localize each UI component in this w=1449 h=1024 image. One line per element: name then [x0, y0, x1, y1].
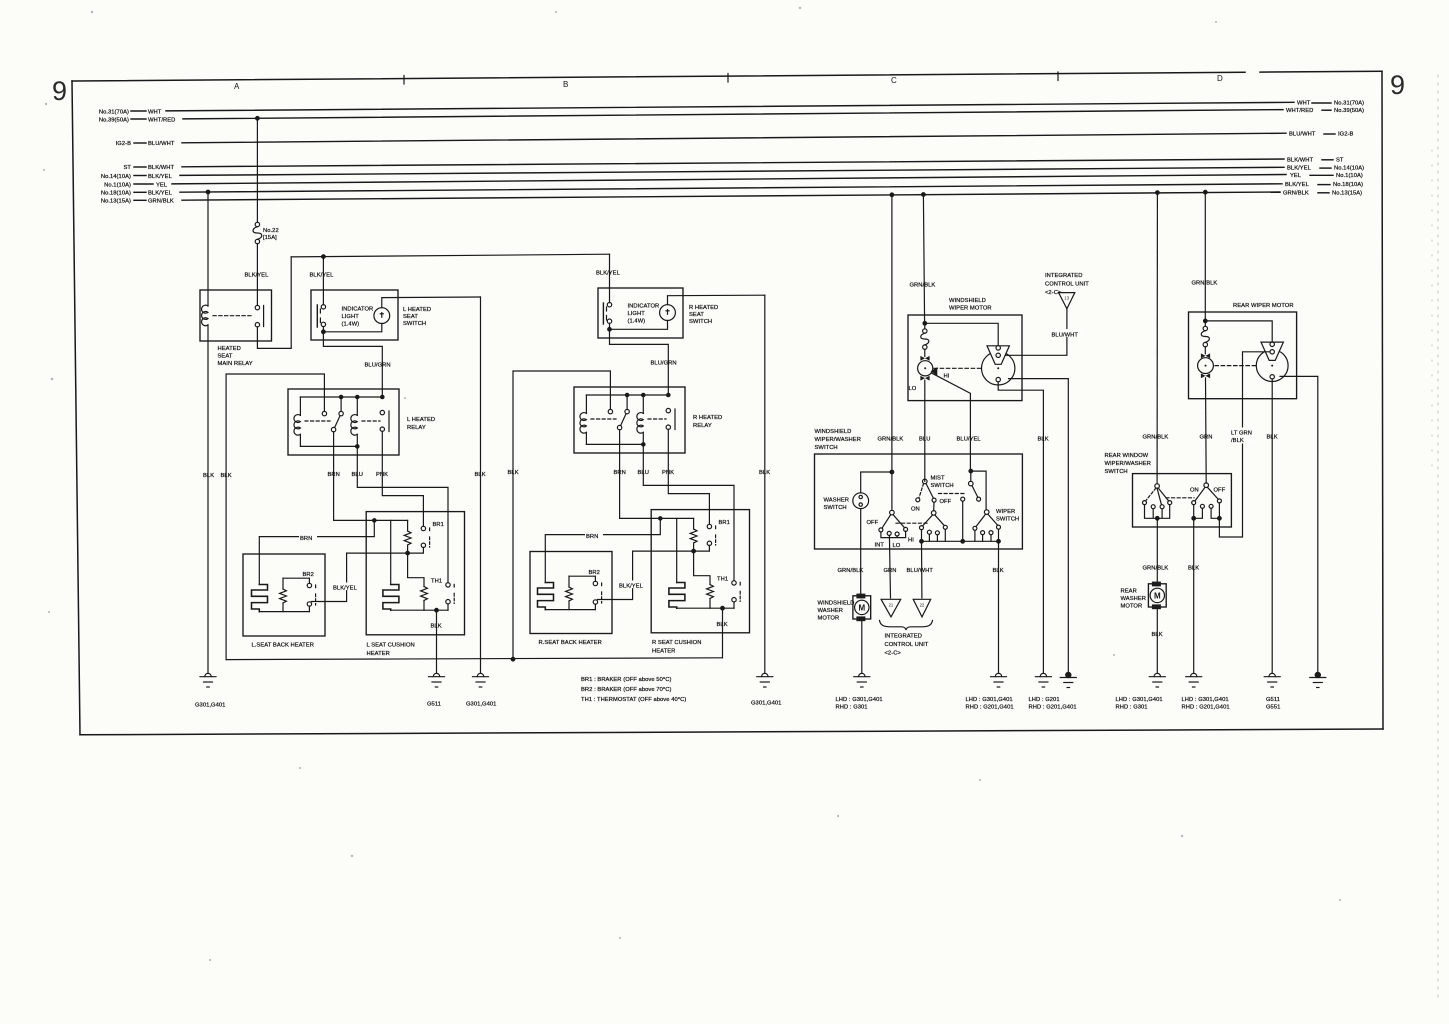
svg-text:MOTOR: MOTOR	[818, 616, 840, 622]
svg-text:No.14(10A): No.14(10A)	[101, 174, 131, 180]
svg-text:BLK/YEL: BLK/YEL	[619, 583, 644, 589]
svg-text:No.39(50A): No.39(50A)	[1334, 108, 1364, 114]
windshield wiper/washer switch box	[815, 429, 1023, 549]
chassis ground rear park	[1310, 672, 1326, 687]
park switch circle	[982, 352, 1015, 385]
svg-text:WHT/RED: WHT/RED	[148, 117, 175, 123]
wire rear motor to rear switch, label GRN	[1200, 378, 1213, 483]
wire rear motor inner rail to park switch	[1205, 321, 1272, 342]
R cushion element feed wire	[676, 518, 678, 582]
svg-text:R HEATED: R HEATED	[689, 305, 718, 311]
node cushion BLK	[435, 608, 439, 612]
wire LT GRN/BLK park to rear switch	[1219, 352, 1270, 537]
svg-text:R SEAT CUSHION: R SEAT CUSHION	[652, 640, 701, 646]
node cushion BLK right	[721, 606, 725, 610]
svg-text:No.18(10A): No.18(10A)	[101, 191, 131, 197]
svg-text:22: 22	[920, 603, 925, 608]
svg-text:G511: G511	[427, 702, 441, 708]
L heated seat switch box	[311, 290, 431, 340]
R indicator light (1.4W)	[628, 304, 676, 325]
R cushion bottom rail	[677, 602, 734, 608]
scan artifact right margin	[1432, 75, 1438, 1000]
svg-text:BLK: BLK	[1188, 566, 1199, 572]
svg-text:SWITCH: SWITCH	[815, 445, 838, 451]
svg-text:YEL: YEL	[156, 182, 168, 188]
svg-text:CONTROL UNIT: CONTROL UNIT	[1045, 282, 1089, 288]
svg-text:HEATED: HEATED	[218, 346, 241, 352]
svg-text:GRN/BLK: GRN/BLK	[878, 437, 904, 443]
page number 9 right	[1390, 70, 1405, 100]
svg-text:D: D	[1217, 74, 1223, 83]
svg-text:GRN/BLK: GRN/BLK	[148, 199, 174, 205]
column tick 2	[727, 74, 729, 83]
svg-text:OFF: OFF	[867, 520, 879, 526]
svg-text:BLK: BLK	[221, 473, 232, 479]
heated seat main relay box	[200, 290, 272, 367]
R back heater top link	[569, 575, 595, 577]
L heated relay box	[288, 389, 435, 455]
svg-text:13: 13	[1064, 296, 1069, 301]
column tick 1	[403, 76, 405, 85]
ground G301,G401 right	[751, 673, 781, 706]
svg-text:MAIN RELAY: MAIN RELAY	[218, 361, 253, 367]
L switch contacts	[317, 305, 325, 327]
node rail-coil2	[356, 395, 359, 398]
chassis ground park switch	[1060, 672, 1076, 687]
svg-text:CONTROL UNIT: CONTROL UNIT	[885, 642, 929, 648]
wiper switch left pole	[867, 510, 915, 549]
bus wire No.14(10A) BLK/YEL	[101, 166, 1364, 180]
column tick 3	[1057, 72, 1059, 81]
svg-text:WIPER MOTOR: WIPER MOTOR	[949, 306, 992, 312]
bus wire IG2-B BLU/WHT	[116, 132, 1354, 148]
dashed link mist poles	[939, 493, 967, 495]
node BRN jog R	[659, 517, 662, 520]
svg-text:No.18(10A): No.18(10A)	[1333, 182, 1363, 188]
svg-text:BLK/YEL: BLK/YEL	[148, 191, 173, 197]
washer switch	[824, 493, 869, 511]
svg-text:WIPER/WASHER: WIPER/WASHER	[815, 437, 861, 443]
wiper left pole links	[881, 531, 906, 537]
column letter A	[234, 82, 240, 91]
wire BLK/YEL link BR2 to cushion junction	[311, 553, 407, 601]
node washer tee	[890, 470, 894, 474]
svg-text:RELAY: RELAY	[407, 425, 426, 431]
svg-text:WASHER: WASHER	[1121, 596, 1147, 602]
svg-text:PNK: PNK	[376, 472, 388, 478]
node rail mist	[961, 540, 965, 544]
svg-text:A: A	[234, 82, 240, 91]
L cushion resistor 2	[421, 587, 428, 611]
node junction BR1/resistor right	[692, 549, 696, 553]
svg-text:RHD : G201,G401: RHD : G201,G401	[1029, 705, 1077, 711]
node rail-changeover R	[625, 393, 628, 396]
svg-text:OFF: OFF	[1214, 488, 1226, 494]
svg-text:LO: LO	[893, 543, 901, 549]
svg-text:RHD : G201,G401: RHD : G201,G401	[1182, 705, 1230, 711]
wire BLU/YEL tee to wiper pole 3	[971, 471, 986, 510]
svg-text:WASHER: WASHER	[818, 608, 844, 614]
bus wire No.39(50A) WHT/RED	[99, 108, 1364, 124]
wire motor LO to mist switch, label BLU	[919, 380, 930, 481]
page number 9 left	[52, 76, 67, 106]
L back heater top link	[283, 577, 309, 579]
svg-text:B: B	[563, 80, 568, 89]
node rear switch BLK out	[1192, 517, 1196, 521]
wiper motor breaker	[921, 323, 929, 356]
svg-text:WINDSHIELD: WINDSHIELD	[815, 429, 852, 435]
R heated seat switch box	[598, 288, 718, 338]
wire BRN from L relay	[328, 432, 408, 521]
svg-text:BLK: BLK	[508, 470, 519, 476]
svg-text:L HEATED: L HEATED	[407, 417, 435, 423]
svg-text:(1.4W): (1.4W)	[342, 322, 360, 328]
wiper motor armature	[909, 356, 950, 392]
svg-text:RHD : G301: RHD : G301	[836, 705, 868, 711]
R relay inner bottom rail	[586, 443, 643, 445]
L relay coil 1	[294, 397, 300, 446]
svg-text:WHT: WHT	[148, 109, 162, 115]
node rail-changeover	[339, 395, 342, 398]
column letter B	[563, 80, 568, 89]
note BR1 BR2 TH1 definitions	[581, 677, 686, 703]
svg-text:G551: G551	[1266, 705, 1280, 711]
L cushion resistor 1	[404, 520, 411, 553]
svg-text:BLU: BLU	[638, 470, 649, 476]
wire rail to L switch, label BLK/YEL	[310, 257, 335, 305]
L relay power contact	[380, 410, 389, 431]
svg-text:SEAT: SEAT	[403, 314, 418, 320]
svg-text:L SEAT CUSHION: L SEAT CUSHION	[367, 643, 415, 649]
breaker BR1 right	[707, 520, 730, 546]
L relay inner bottom rail	[300, 445, 357, 447]
L back heater element	[252, 585, 268, 612]
R seat back heater box	[530, 552, 612, 647]
wire BLK from lamp rail to ground, label BLK	[475, 297, 486, 673]
wire BLK from R lamp rail to ground, label BLK	[759, 295, 770, 673]
wire motor inner rail to park switch	[925, 323, 998, 345]
R back heater bottom rail	[545, 604, 595, 609]
svg-text:GRN: GRN	[1200, 435, 1213, 441]
node BLU/YEL tee	[969, 469, 973, 473]
svg-text:INT: INT	[875, 543, 885, 549]
svg-text:HI: HI	[944, 374, 950, 380]
L relay inner top rail	[300, 396, 382, 398]
bus wire No.18(10A) BLK/YEL	[101, 182, 1363, 196]
svg-text:BLK: BLK	[431, 624, 442, 630]
svg-text:BLK: BLK	[759, 470, 770, 476]
integrated control unit 21	[881, 599, 901, 617]
wire L switch lower contact to lamp bottom	[323, 324, 381, 332]
indicator light (1.4W)	[342, 307, 390, 328]
R cushion resistor 2	[707, 585, 714, 609]
mist switch right pole	[961, 471, 981, 501]
svg-text:GRN/BLK: GRN/BLK	[910, 283, 936, 289]
svg-text:YEL: YEL	[1290, 173, 1302, 179]
wire BLU/WHT ICU13 to park switch	[1002, 309, 1082, 356]
svg-text:LIGHT: LIGHT	[628, 311, 646, 317]
svg-text:SWITCH: SWITCH	[1105, 469, 1128, 475]
svg-text:SWITCH: SWITCH	[403, 321, 426, 327]
svg-text:OFF: OFF	[940, 499, 952, 505]
supply rail BLK/YEL to seat switches	[291, 254, 609, 257]
svg-text:LHD : G301,G401: LHD : G301,G401	[1116, 697, 1163, 703]
svg-text:GRN: GRN	[884, 568, 897, 574]
svg-text:BLU/GRN: BLU/GRN	[651, 361, 677, 367]
R relay dashed links	[591, 418, 666, 420]
wire GRN/BLK bus to wiper motor, label GRN/BLK	[910, 195, 936, 324]
svg-text:INDICATOR: INDICATOR	[342, 307, 374, 313]
park switch bottom contact	[996, 377, 1000, 381]
svg-text:R HEATED: R HEATED	[693, 415, 722, 421]
svg-text:L HEATED: L HEATED	[403, 307, 431, 313]
node R switch output	[608, 328, 612, 332]
windshield wiper motor box	[908, 298, 1022, 401]
ground washer motor	[836, 673, 883, 710]
bus wire No.31(70A) WHT	[99, 101, 1364, 116]
svg-text:BLU/YEL: BLU/YEL	[957, 437, 982, 443]
wire PNK from L relay to BR1	[376, 431, 423, 526]
svg-text:INTEGRATED: INTEGRATED	[885, 634, 922, 640]
svg-text:No.31(70A): No.31(70A)	[99, 109, 129, 115]
svg-text:BR1 : BRAKER (OFF above 50°C): BR1 : BRAKER (OFF above 50°C)	[581, 677, 671, 683]
node rear switch GRN/BLK out	[1156, 517, 1160, 521]
svg-text:BR1: BR1	[719, 520, 730, 526]
node rear motor inner rail	[1204, 319, 1208, 323]
svg-text:/BLK: /BLK	[1231, 438, 1244, 444]
svg-text:PNK: PNK	[662, 470, 674, 476]
thermostat TH1 right	[717, 577, 740, 602]
svg-text:BLK/YEL: BLK/YEL	[148, 174, 173, 180]
svg-text:BLK: BLK	[1152, 632, 1163, 638]
svg-text:BLK: BLK	[1038, 437, 1049, 443]
svg-text:LHD : G301,G401: LHD : G301,G401	[966, 697, 1013, 703]
node GRN/BLK bus to rear motor	[1204, 190, 1208, 194]
wire BLK to ground, label BLK	[993, 541, 1004, 673]
wire BLU from L relay to TH1	[352, 446, 449, 582]
rear window wiper/washer switch box	[1105, 453, 1232, 527]
bus wire ST BLK/WHT	[123, 157, 1343, 171]
svg-text:LO: LO	[909, 386, 917, 392]
wire BRN jog down to heater feed line	[259, 520, 374, 584]
wire main relay contact output to supply rail	[257, 257, 291, 349]
svg-text:[15A]: [15A]	[263, 235, 277, 241]
mist switch left pole	[911, 476, 954, 513]
wire HI diagonal to BLU/YEL, label BLU/YEL	[932, 373, 982, 471]
wire GRN/BLK bus to rear wiper motor, label GRN/BLK	[1192, 192, 1218, 321]
L relay coil 2	[351, 397, 357, 446]
wire BLU from R relay to TH1	[638, 444, 735, 580]
R heated relay box	[574, 387, 722, 453]
R relay power contact	[666, 408, 675, 429]
brace integrated control unit	[880, 621, 933, 631]
svg-text:No.14(10A): No.14(10A)	[1334, 166, 1364, 172]
svg-text:WHT: WHT	[1297, 101, 1311, 107]
svg-text:G301,G401: G301,G401	[195, 703, 225, 709]
svg-text:BLK/WHT: BLK/WHT	[1287, 157, 1314, 163]
rear switch right pole ON/OFF	[1190, 483, 1226, 508]
svg-text:No.22: No.22	[263, 228, 279, 234]
column letter D	[1217, 74, 1223, 83]
node GRN/BLK bus to wiper motor	[922, 193, 926, 197]
windshield washer motor	[818, 594, 871, 622]
svg-text:L.SEAT BACK HEATER: L.SEAT BACK HEATER	[252, 643, 314, 649]
svg-text:BRN: BRN	[300, 536, 312, 542]
rear motor breaker	[1201, 321, 1209, 354]
svg-text:WINDSHIELD: WINDSHIELD	[949, 298, 986, 304]
svg-text:ST: ST	[123, 165, 131, 171]
svg-text:M: M	[858, 603, 865, 612]
svg-text:R.SEAT BACK HEATER: R.SEAT BACK HEATER	[539, 640, 602, 646]
L cushion bottom rail	[391, 604, 448, 610]
R cushion heater element	[669, 583, 685, 609]
svg-text:G301,G401: G301,G401	[751, 701, 781, 707]
park switch sector	[987, 346, 1009, 365]
wire R lamp top to BLK ground wire	[668, 295, 765, 305]
border frame of diagram	[72, 71, 1383, 735]
svg-text:MIST: MIST	[931, 476, 945, 482]
wire fuse to main relay contact, label BLK/YEL	[245, 244, 270, 306]
svg-text:WASHER: WASHER	[824, 498, 850, 504]
wire BLU/WHT to ICU22, label BLU/WHT	[907, 541, 934, 598]
L cushion element feed wire	[390, 520, 392, 584]
svg-text:21: 21	[889, 603, 894, 608]
wire GRN to ICU21, label GRN	[884, 535, 897, 598]
svg-text:C: C	[891, 76, 897, 85]
R switch contacts	[603, 303, 611, 325]
svg-text:SEAT: SEAT	[218, 354, 233, 360]
rear washer motor	[1121, 582, 1167, 610]
node GRN/BLK bus to switch	[890, 193, 894, 197]
thermostat TH1	[431, 579, 454, 604]
svg-text:BLK: BLK	[203, 473, 214, 479]
wire No.18 bus to main relay coil	[207, 192, 209, 306]
rear switch right pole links	[1194, 503, 1220, 518]
R back heater element	[538, 583, 554, 610]
R seat cushion heater box	[651, 510, 749, 655]
wire PNK from R relay to BR1	[662, 429, 709, 524]
svg-text:LT GRN: LT GRN	[1231, 431, 1252, 437]
L seat back heater box	[243, 554, 325, 649]
integrated control unit 22	[913, 599, 931, 617]
svg-text:GRN/BLK: GRN/BLK	[838, 568, 864, 574]
wire park right contact to chassis ground	[1009, 379, 1069, 674]
L seat cushion heater box	[366, 512, 464, 657]
wire L switch output to L relay, label BLU/GRN	[323, 332, 390, 395]
svg-text:BLK/YEL: BLK/YEL	[1285, 182, 1310, 188]
svg-text:TH1: TH1	[717, 577, 728, 583]
wire rear switch BLK to ground, label BLK	[1188, 518, 1199, 673]
rear park bottom contact	[1270, 375, 1274, 379]
label BRN on R feed line	[585, 531, 603, 540]
svg-text:HI: HI	[908, 538, 914, 544]
svg-text:WIPER: WIPER	[996, 509, 1015, 515]
wire GRN/BLK bus to rear switch, label GRN/BLK	[1143, 193, 1169, 484]
bus wire No.1(10A) YEL	[104, 173, 1363, 188]
svg-text:IG2-B: IG2-B	[116, 141, 131, 147]
svg-text:BLK/YEL: BLK/YEL	[245, 273, 270, 279]
svg-text:GRN/BLK: GRN/BLK	[1143, 566, 1169, 572]
wire washer switch to washer motor, label GRN/BLK	[838, 509, 864, 596]
svg-text:REAR: REAR	[1121, 589, 1137, 595]
label integrated control unit 2-C	[885, 634, 929, 657]
node rail BLK	[997, 540, 1001, 544]
svg-text:BLU: BLU	[352, 472, 363, 478]
ground wiper switch BLK	[966, 673, 1014, 710]
wire junction to resistor 2 right	[694, 551, 710, 584]
L back heater resistor	[280, 578, 287, 611]
svg-text:SWITCH: SWITCH	[824, 505, 847, 511]
wiper pole 2 links	[922, 529, 946, 541]
svg-text:BLU/GRN: BLU/GRN	[365, 363, 391, 369]
breaker BR1	[421, 522, 444, 548]
node BRN jog	[373, 519, 376, 522]
ground wiper motor BLK	[1029, 673, 1077, 710]
svg-text:LIGHT: LIGHT	[342, 314, 360, 320]
svg-text:No.1(10A): No.1(10A)	[1336, 173, 1363, 179]
ground G301,G401 lamp	[466, 673, 496, 707]
wiper switch pole 2	[920, 511, 948, 535]
rear wiper motor box	[1189, 303, 1297, 399]
dashed link rear motor to park	[1215, 365, 1256, 367]
main relay coil wire to ground, label BLK	[203, 325, 214, 673]
ground rear washer motor	[1116, 673, 1166, 710]
rear switch left pole	[1143, 484, 1172, 509]
rear park switch circle	[1256, 350, 1288, 382]
wire lamp top to BLK ground wire	[382, 297, 481, 308]
svg-text:BRN: BRN	[328, 472, 340, 478]
svg-text:WINDSHIELD: WINDSHIELD	[818, 601, 855, 607]
wiper pole 3 links	[963, 501, 999, 541]
svg-text:9: 9	[1390, 70, 1405, 100]
svg-text:BLU/WHT: BLU/WHT	[1289, 132, 1316, 138]
svg-text:ON: ON	[911, 507, 920, 513]
node junction BR1/resistor	[406, 551, 410, 555]
svg-text:RELAY: RELAY	[693, 423, 712, 429]
svg-text:BR2: BR2	[303, 572, 314, 578]
R relay coil 2	[637, 395, 643, 444]
ground G511 G551	[1264, 673, 1280, 710]
svg-text:GRN/BLK: GRN/BLK	[1283, 190, 1309, 196]
main relay coil	[202, 305, 208, 326]
node GRN/BLK bus to rear switch	[1156, 191, 1160, 195]
svg-text:REAR WINDOW: REAR WINDOW	[1105, 453, 1149, 459]
wire BLK/YEL link BR2 to cushion junction right	[597, 551, 693, 599]
wire BRN from R relay	[614, 430, 694, 519]
svg-text:No.13(15A): No.13(15A)	[1332, 190, 1362, 196]
svg-text:BRN: BRN	[586, 534, 598, 540]
svg-text:No.1(10A): No.1(10A)	[104, 182, 131, 188]
svg-text:LHD : G301,G401: LHD : G301,G401	[1182, 697, 1229, 703]
svg-text:BR2 : BRAKER (OFF above 70°C): BR2 : BRAKER (OFF above 70°C)	[581, 687, 671, 693]
node rail BLU/WHT	[920, 540, 924, 544]
wiper switch pole 3	[973, 509, 1019, 535]
svg-text:BLK: BLK	[1267, 435, 1278, 441]
svg-text:BLK: BLK	[993, 568, 1004, 574]
node on WHT/RED bus	[256, 117, 260, 121]
wire WHT/RED bus to fuse No.22	[256, 118, 258, 222]
bus wire No.13(15A) GRN/BLK	[101, 190, 1362, 204]
ground G511	[427, 673, 445, 707]
fuse No.22 [15A]	[253, 222, 279, 243]
node bottom rail BLU R	[642, 443, 645, 446]
wire junction to resistor 2	[408, 553, 424, 586]
bottom ground rail	[226, 658, 722, 660]
svg-text:M: M	[1154, 591, 1161, 600]
wire tee to washer switch	[861, 472, 892, 493]
svg-text:BLK: BLK	[475, 472, 486, 478]
svg-text:<2-C>: <2-C>	[885, 651, 902, 657]
